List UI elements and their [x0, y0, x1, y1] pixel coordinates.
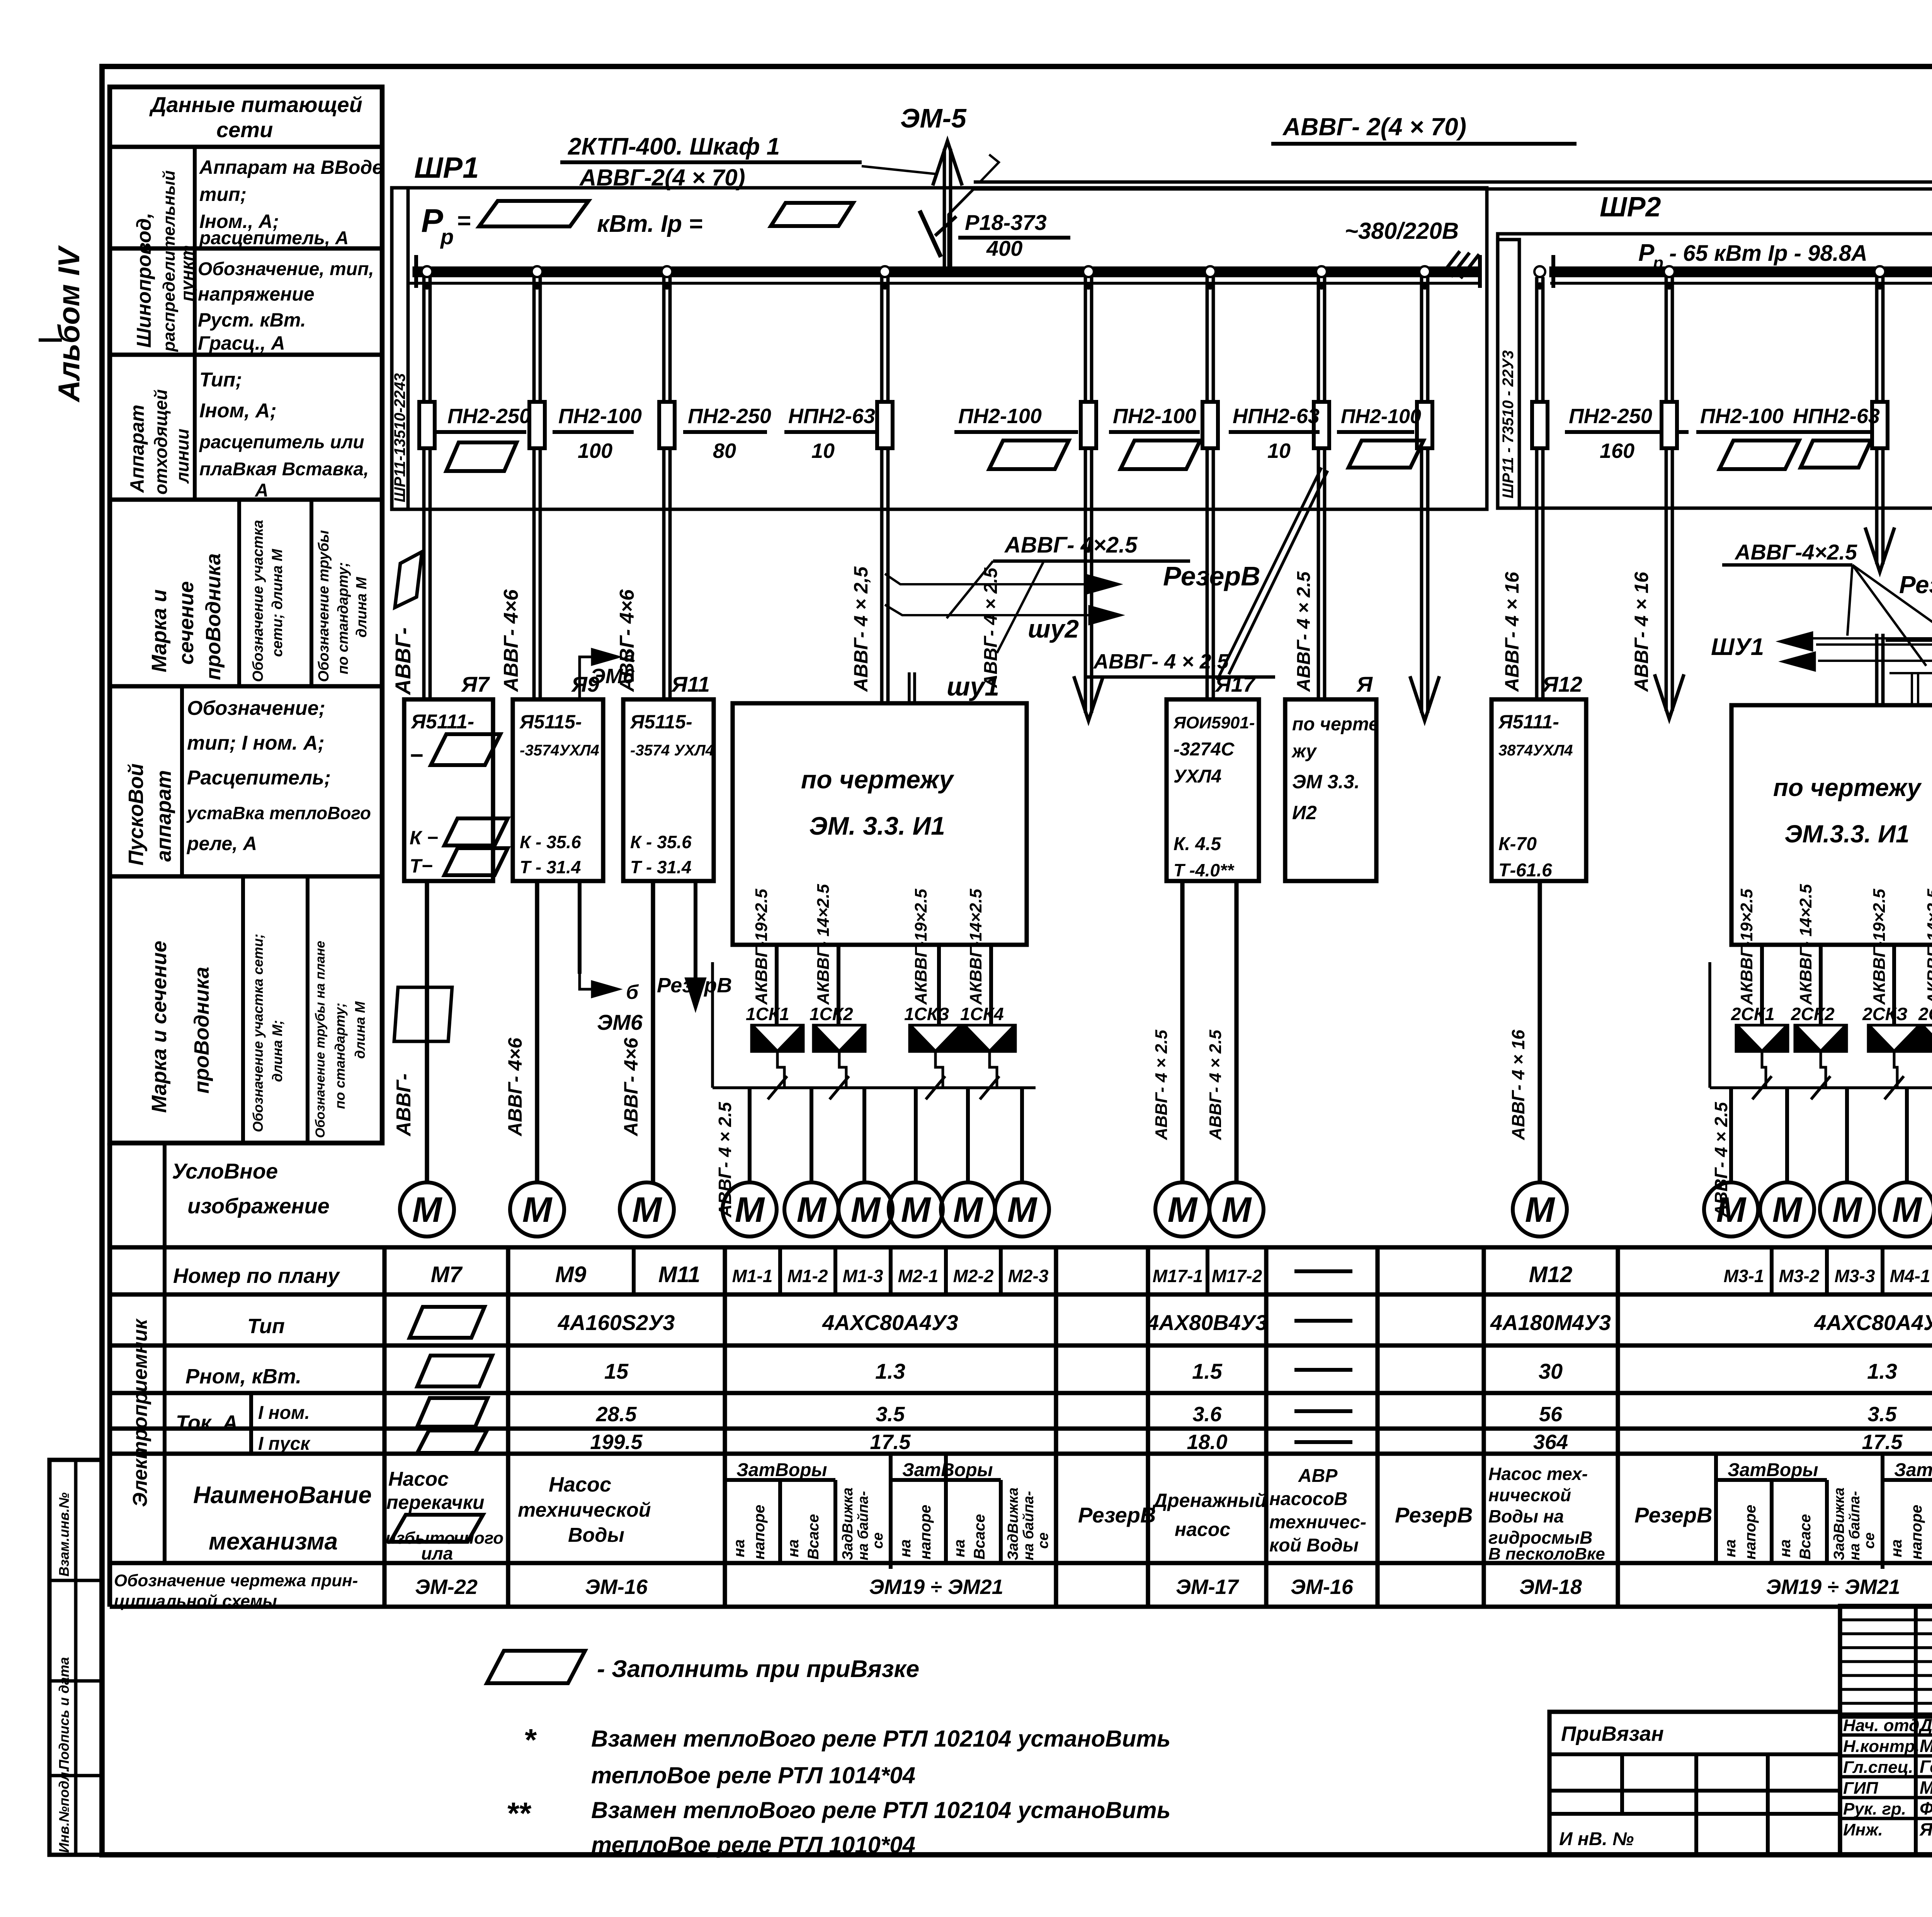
fuse НПН2-63/10 (ШУ1)	[877, 402, 893, 448]
bus2 feeder taps	[1534, 266, 1545, 277]
valve 2СК4	[1920, 1024, 1932, 1053]
svg-text:расцепитель или: расцепитель или	[199, 432, 364, 452]
svg-text:10: 10	[1267, 439, 1291, 463]
svg-text:АВВГ- 4 × 16: АВВГ- 4 × 16	[1631, 572, 1652, 692]
svg-text:Взамен теплоВого реле РТЛ 1021: Взамен теплоВого реле РТЛ 102104 устаноВ…	[591, 1797, 1170, 1823]
bus1 feeder taps	[422, 266, 432, 277]
svg-text:на байпа-: на байпа-	[855, 1491, 871, 1560]
svg-text:ЭМ 3.3.: ЭМ 3.3.	[1292, 771, 1360, 793]
svg-text:ЭМ6: ЭМ6	[590, 665, 635, 688]
svg-text:Р: Р	[1638, 240, 1655, 266]
svg-text:на байпа-: на байпа-	[1020, 1491, 1037, 1560]
svg-text:ЭМ19 ÷ ЭМ21: ЭМ19 ÷ ЭМ21	[869, 1575, 1003, 1599]
svg-text:насос: насос	[1175, 1519, 1230, 1540]
starter Я11 (Я5115-3574УХЛ4)	[623, 699, 714, 881]
svg-text:М2-2: М2-2	[953, 1266, 994, 1286]
motor М12	[1513, 1182, 1567, 1237]
svg-text:кой Воды: кой Воды	[1269, 1535, 1359, 1556]
svg-text:Аппарат на ВВоде: Аппарат на ВВоде	[199, 156, 383, 178]
svg-text:−: −	[410, 742, 423, 768]
svg-text:М: М	[1716, 1190, 1747, 1230]
fuse ПН2-100 (Я17)	[1202, 402, 1218, 448]
svg-text:30: 30	[1539, 1359, 1563, 1383]
svg-text:ЭМ-16: ЭМ-16	[1291, 1575, 1354, 1599]
svg-text:Я5111-: Я5111-	[1498, 711, 1559, 733]
svg-text:Обозначение трубы: Обозначение трубы	[316, 530, 332, 682]
svg-text:М2-3: М2-3	[1008, 1266, 1049, 1286]
feeder Резерв (ШУ2 area) arrow	[1875, 277, 1879, 564]
svg-text:механизма: механизма	[209, 1528, 338, 1555]
main supply cable АВВГ-2(4х70) across top	[974, 180, 1932, 184]
motor М3-3	[1820, 1182, 1874, 1237]
svg-text:НаименоВание: НаименоВание	[193, 1482, 372, 1509]
svg-text:І пуск: І пуск	[258, 1434, 311, 1454]
svg-text:отходящей: отходящей	[151, 389, 171, 495]
svg-text:М: М	[1892, 1190, 1923, 1230]
svg-text:шу2: шу2	[1028, 614, 1079, 643]
rotated label Аппарат отходящей линии	[193, 355, 197, 500]
motor М1-3	[838, 1182, 893, 1237]
svg-text:се: се	[1861, 1533, 1878, 1549]
svg-text:сети; длина М: сети; длина М	[269, 549, 286, 657]
title block: attachment box (Привязан)	[1549, 1712, 1840, 1855]
svg-text:=: =	[457, 208, 471, 234]
svg-text:Воды на: Воды на	[1488, 1506, 1564, 1526]
svg-text:М: М	[1222, 1190, 1252, 1230]
fuse НПН2-63 (ШУ2)	[1872, 402, 1888, 448]
ШУ2 second top wire	[1911, 674, 1913, 705]
feeder М9 wire	[532, 277, 536, 699]
svg-text:Н.контр.: Н.контр.	[1843, 1737, 1920, 1756]
svg-text:по чертежу: по чертежу	[1773, 774, 1922, 801]
svg-text:3874УХЛ4: 3874УХЛ4	[1498, 742, 1573, 759]
valve 2СК1	[1735, 1024, 1789, 1053]
svg-text:Всасе: Всасе	[1797, 1514, 1814, 1560]
svg-text:М1-1: М1-1	[732, 1266, 773, 1286]
svg-text:РезерВ: РезерВ	[657, 974, 732, 997]
motor М3-2	[1760, 1182, 1814, 1237]
svg-text:-3274С: -3274С	[1173, 739, 1235, 760]
svg-text:2КТП-400. Шкаф 1: 2КТП-400. Шкаф 1	[568, 133, 780, 160]
legend parallelogram	[487, 1651, 585, 1683]
svg-text:на: на	[785, 1539, 802, 1557]
svg-text:АВВГ- 4 × 2,5: АВВГ- 4 × 2,5	[850, 566, 872, 692]
feeder М7 wire	[422, 277, 426, 699]
feeder Резерв (bus2 left) arrow	[1665, 277, 1668, 711]
svg-text:2СК2: 2СК2	[1791, 1004, 1835, 1024]
svg-text:на: на	[731, 1539, 748, 1557]
svg-text:3.5: 3.5	[876, 1403, 905, 1426]
motor М2-2	[941, 1182, 995, 1237]
ШУ2 output wires to valves	[1760, 945, 1764, 1024]
svg-text:теплоВое реле РТЛ 1014*04: теплоВое реле РТЛ 1014*04	[591, 1762, 915, 1788]
М7 output wire	[425, 881, 429, 1183]
svg-text:М: М	[1525, 1190, 1556, 1230]
svg-text:-3574УХЛ4: -3574УХЛ4	[520, 742, 599, 759]
svg-text:АВВГ- 4 × 2.5: АВВГ- 4 × 2.5	[1294, 571, 1314, 692]
svg-text:технической: технической	[518, 1499, 651, 1521]
svg-text:1СК4: 1СК4	[960, 1004, 1004, 1024]
svg-text:Грасц., А: Грасц., А	[198, 332, 285, 354]
title block: revision/signature grid	[1840, 1606, 1932, 1855]
svg-text:АВВГ- 4 × 2.5: АВВГ- 4 × 2.5	[1093, 650, 1229, 673]
svg-text:АВВГ-: АВВГ-	[391, 628, 415, 696]
svg-text:АВВГ- 4 × 16: АВВГ- 4 × 16	[1501, 572, 1523, 692]
neutral line under bus1	[410, 282, 1480, 285]
svg-text:изображение: изображение	[187, 1194, 330, 1218]
fuse ПН2-250/80 (М11)	[659, 402, 675, 448]
svg-text:Альбом IV: Альбом IV	[52, 245, 86, 403]
svg-text:М: М	[1832, 1190, 1863, 1230]
svg-text:ПускоВой: ПускоВой	[124, 764, 148, 866]
svg-text:М: М	[797, 1190, 827, 1230]
svg-text:К −: К −	[410, 827, 438, 849]
starter Я17 (ЯОИ5901-3274С)	[1167, 699, 1259, 881]
motor drop wires М1-1..М2-3	[748, 1088, 752, 1183]
branch arrows to ШУ2	[885, 574, 1097, 584]
svg-text:ДанилоВ: ДанилоВ	[1918, 1715, 1932, 1735]
svg-text:ПН2-100: ПН2-100	[1341, 405, 1421, 428]
section: Марка и сечение проводника (lower)	[241, 876, 245, 1143]
svg-text:Взамен теплоВого реле РТЛ 1021: Взамен теплоВого реле РТЛ 102104 устаноВ…	[591, 1726, 1170, 1752]
svg-text:Инв.№подл.: Инв.№подл.	[56, 1768, 72, 1853]
svg-text:1СК1: 1СК1	[746, 1004, 789, 1024]
svg-text:на: на	[897, 1539, 914, 1557]
svg-text:80: 80	[713, 439, 736, 463]
svg-text:2СК4: 2СК4	[1918, 1004, 1932, 1024]
svg-text:Т - 31.4: Т - 31.4	[630, 857, 692, 877]
svg-text:Шинопровод,: Шинопровод,	[133, 213, 155, 348]
left header table frame	[110, 87, 382, 1143]
svg-text:АВВГ-: АВВГ-	[393, 1073, 415, 1137]
svg-text:Обозначение чертежа прин-: Обозначение чертежа прин-	[114, 1571, 358, 1590]
svg-text:АКВВГ-19×2.5: АКВВГ-19×2.5	[912, 889, 930, 1005]
short column dividers	[632, 1247, 636, 1294]
М7 output label АВВГ- + placeholder	[394, 987, 452, 1041]
svg-text:56: 56	[1539, 1403, 1563, 1426]
svg-text:на: на	[951, 1539, 968, 1557]
feeder Резерв2 arrow	[1420, 277, 1423, 713]
svg-text:28.5: 28.5	[595, 1403, 637, 1426]
svg-text:4А180М4У3: 4А180М4У3	[1490, 1310, 1611, 1335]
svg-text:Подпись и дата: Подпись и дата	[56, 1657, 72, 1770]
svg-text:ШР2: ШР2	[1600, 192, 1661, 223]
Я17 output wires	[1180, 881, 1184, 1183]
svg-text:а: а	[624, 644, 635, 666]
cabinet ШР1 outline	[392, 188, 1487, 509]
svg-text:Руст. кВт.: Руст. кВт.	[198, 309, 306, 331]
ШУ1 second stub wire	[908, 672, 911, 703]
svg-text:М: М	[901, 1190, 932, 1230]
svg-text:М: М	[953, 1190, 984, 1230]
svg-text:УслоВное: УслоВное	[172, 1159, 278, 1183]
hatch at bus1 right end	[1441, 251, 1460, 275]
svg-text:400: 400	[986, 236, 1022, 260]
svg-text:АВВГ- 4 × 2.5: АВВГ- 4 × 2.5	[1206, 1029, 1225, 1140]
svg-text:10: 10	[811, 439, 835, 463]
motor М11	[620, 1182, 674, 1237]
svg-text:- 65 кВт Ір - 98.8А: - 65 кВт Ір - 98.8А	[1669, 241, 1867, 266]
svg-text:устаВка теплоВого: устаВка теплоВого	[186, 803, 371, 823]
svg-text:Инж.: Инж.	[1843, 1820, 1883, 1839]
svg-text:Іном, А;: Іном, А;	[199, 400, 277, 422]
svg-text:Обозначение участка сети;: Обозначение участка сети;	[250, 934, 266, 1132]
svg-text:ПН2-100: ПН2-100	[1700, 405, 1784, 428]
svg-text:тип; І ном. А;: тип; І ном. А;	[187, 732, 325, 754]
svg-text:ЯОИ5901-: ЯОИ5901-	[1173, 713, 1255, 732]
starter cabinet ШУ1 (по чертежу ЭМ.3.3.И1)	[733, 703, 1027, 945]
svg-text:Всасе: Всасе	[805, 1514, 822, 1560]
svg-text:се: се	[870, 1533, 886, 1549]
svg-text:Расцепитель;: Расцепитель;	[187, 767, 331, 789]
svg-text:И2: И2	[1292, 802, 1317, 823]
fuse ПН2-250 (М7)	[419, 402, 435, 448]
svg-text:ЗатВоры: ЗатВоры	[1894, 1460, 1932, 1480]
svg-text:Я5111-: Я5111-	[410, 711, 474, 733]
svg-text:ЗадВижка: ЗадВижка	[840, 1487, 856, 1560]
svg-text:Насос тех-: Насос тех-	[1488, 1464, 1588, 1484]
svg-text:Гольцман: Гольцман	[1920, 1757, 1932, 1777]
motor М2-3	[995, 1182, 1049, 1237]
svg-text:І ном.: І ном.	[258, 1403, 310, 1423]
svg-text:- Заполнить при приВязке: - Заполнить при приВязке	[597, 1656, 919, 1682]
ШУ2 valve outputs to shelf	[1762, 1053, 1766, 1088]
svg-text:Янченко: Янченко	[1919, 1819, 1932, 1839]
svg-text:Я: Я	[1356, 672, 1373, 696]
valve 1СК1	[750, 1024, 804, 1053]
svg-text:199.5: 199.5	[590, 1431, 643, 1454]
svg-text:Марка и: Марка и	[148, 589, 171, 672]
svg-text:Марка и сечение: Марка и сечение	[148, 941, 171, 1113]
svg-text:сети: сети	[216, 117, 273, 142]
Я12 output wire	[1537, 881, 1542, 1183]
svg-text:сечение: сечение	[175, 581, 198, 665]
svg-text:АВВГ- 4 × 2.5: АВВГ- 4 × 2.5	[981, 567, 1001, 688]
section: Пусковой аппарат	[180, 686, 184, 876]
svg-text:АКВВГ-19×2.5: АКВВГ-19×2.5	[1870, 889, 1889, 1005]
starter cabinet ШУ2 (по чертежу ЭМ.3.3.И1)	[1731, 705, 1932, 945]
svg-text:ГИП: ГИП	[1843, 1779, 1879, 1798]
svg-text:по чертежу: по чертежу	[801, 765, 955, 794]
svg-text:Обозначение трубы на плане: Обозначение трубы на плане	[313, 941, 328, 1138]
svg-text:1.5: 1.5	[1192, 1359, 1223, 1383]
svg-text:4А160S2У3: 4А160S2У3	[558, 1310, 675, 1335]
svg-text:Дренажный: Дренажный	[1152, 1490, 1267, 1511]
svg-text:ЭМ-5: ЭМ-5	[900, 103, 967, 133]
ШУ1 distribution shelf wire	[713, 1086, 1036, 1089]
svg-text:Обозначение, тип,: Обозначение, тип,	[198, 259, 374, 279]
branch arrows to ШУЗ / ЭМ-7 (right)	[1886, 640, 1932, 642]
svg-text:на: на	[1888, 1539, 1905, 1557]
svg-text:проВодника: проВодника	[190, 967, 213, 1094]
svg-text:ШУ1: ШУ1	[1711, 634, 1764, 660]
svg-text:М: М	[412, 1190, 443, 1230]
rotated label Шинопровод, распределительный пункт	[193, 147, 197, 355]
svg-text:Т -4.0**: Т -4.0**	[1173, 860, 1235, 880]
svg-text:К. 4.5: К. 4.5	[1173, 834, 1221, 854]
svg-text:Мосеенко: Мосеенко	[1920, 1736, 1932, 1756]
svg-text:АВВГ- 4×2.5: АВВГ- 4×2.5	[1004, 532, 1138, 558]
svg-text:тип;: тип;	[199, 184, 247, 205]
svg-text:ПН2-100: ПН2-100	[1113, 405, 1196, 428]
М9 output wire + side taps	[535, 881, 539, 1183]
svg-text:364: 364	[1533, 1431, 1568, 1454]
svg-text:проВодника: проВодника	[202, 553, 225, 680]
svg-text:АВВГ- 2(4 × 70): АВВГ- 2(4 × 70)	[1282, 113, 1466, 141]
svg-text:160: 160	[1600, 439, 1634, 463]
fuse НПН2-63/10 (И2)	[1314, 402, 1329, 448]
svg-text:АКВВГ-14×2.5: АКВВГ-14×2.5	[1924, 889, 1932, 1005]
svg-text:А: А	[255, 480, 269, 501]
ШУ1 output wires to valves	[775, 945, 779, 1024]
svg-text:на байпа-: на байпа-	[1847, 1491, 1863, 1560]
svg-text:УХЛ4: УХЛ4	[1173, 766, 1221, 787]
feeder Резерв (ПН2-100) arrow	[1084, 277, 1087, 713]
svg-text:Я17: Я17	[1214, 672, 1256, 696]
svg-text:Взам.инв.№: Взам.инв.№	[56, 1492, 72, 1577]
svg-text:ПриВязан: ПриВязан	[1561, 1722, 1664, 1745]
svg-text:4АХС80А4У3: 4АХС80А4У3	[1814, 1310, 1932, 1335]
svg-text:длина М: длина М	[354, 577, 370, 638]
feeder Я12 wire	[1535, 277, 1539, 699]
svg-text:РезерВ: РезерВ	[1395, 1503, 1473, 1527]
svg-text:Нач. отд.: Нач. отд.	[1843, 1716, 1924, 1735]
svg-text:плаВкая Вставка,: плаВкая Вставка,	[199, 459, 369, 480]
svg-text:НПН2-63: НПН2-63	[1793, 405, 1880, 428]
svg-text:АВВГ- 4 × 16: АВВГ- 4 × 16	[1508, 1029, 1528, 1140]
svg-text:В песколоВке: В песколоВке	[1488, 1544, 1605, 1563]
motor М1-2	[784, 1182, 838, 1237]
svg-text:длина М;: длина М;	[269, 1020, 285, 1082]
leader slant (Я17)	[1217, 468, 1321, 680]
svg-text:по стандарту;: по стандарту;	[332, 1003, 348, 1109]
svg-text:Обозначение участка: Обозначение участка	[250, 520, 266, 682]
fuse ПН2-100 (резерв2)	[1417, 402, 1432, 448]
fuse ПН2-100 (bus2)	[1662, 402, 1677, 448]
svg-text:М: М	[632, 1190, 663, 1230]
fuse ПН2-100/100 (М9)	[529, 402, 545, 448]
valve 1СК3	[908, 1024, 963, 1053]
motor М3-1	[1704, 1182, 1758, 1237]
svg-text:Воды: Воды	[568, 1524, 624, 1546]
svg-text:кВт. Ір =: кВт. Ір =	[597, 211, 703, 237]
svg-text:р: р	[440, 225, 454, 249]
svg-text:АКВВГ-19×2.5: АКВВГ-19×2.5	[752, 889, 771, 1005]
svg-text:М7: М7	[431, 1262, 463, 1287]
svg-text:~380/220В: ~380/220В	[1345, 218, 1459, 244]
svg-text:М: М	[522, 1190, 553, 1230]
svg-text:М1-2: М1-2	[787, 1266, 828, 1286]
svg-text:Обозначение;: Обозначение;	[187, 697, 325, 720]
svg-text:РезерВ: РезерВ	[1078, 1503, 1156, 1527]
svg-text:жу: жу	[1291, 741, 1317, 762]
svg-text:напряжение: напряжение	[198, 283, 315, 305]
svg-text:2СКЗ: 2СКЗ	[1862, 1004, 1908, 1024]
svg-text:ЭМ-18: ЭМ-18	[1519, 1575, 1582, 1599]
svg-text:Т - 31.4: Т - 31.4	[520, 857, 581, 877]
svg-text:по черте: по черте	[1292, 714, 1379, 735]
svg-text:ПН2-100: ПН2-100	[558, 405, 642, 428]
starter box И2 (по чертежу ЭМ 3.3 И2)	[1285, 699, 1376, 881]
svg-text:реле, А: реле, А	[186, 833, 257, 854]
svg-text:напоре: напоре	[1908, 1505, 1925, 1560]
svg-text:17.5: 17.5	[870, 1431, 911, 1454]
svg-text:100: 100	[578, 439, 612, 463]
fuse ПН2-250/160 (Я12)	[1532, 402, 1548, 448]
motor М17-2	[1209, 1182, 1264, 1237]
svg-text:17.5: 17.5	[1862, 1431, 1903, 1454]
ШУ1 valve outputs to shelf	[777, 1053, 784, 1088]
busbar ШР2	[1549, 267, 1932, 277]
svg-text:теплоВое реле РТЛ 1010*04: теплоВое реле РТЛ 1010*04	[591, 1832, 915, 1858]
svg-text:М3-3: М3-3	[1835, 1266, 1875, 1286]
svg-text:М3-1: М3-1	[1724, 1266, 1764, 1286]
svg-text:-3574 УХЛ4: -3574 УХЛ4	[630, 742, 714, 759]
svg-text:Рук. гр.: Рук. гр.	[1843, 1800, 1906, 1818]
valve 2СК2	[1794, 1024, 1848, 1053]
motor drop wires М3-1..М4-3	[1729, 1088, 1733, 1183]
svg-text:Т−: Т−	[410, 855, 433, 877]
feeder ШУ1 wire	[880, 277, 884, 703]
svg-text:1.3: 1.3	[875, 1359, 905, 1383]
valve sub-cells in name row	[889, 1459, 893, 1569]
svg-text:линии: линии	[172, 429, 192, 484]
svg-text:се: се	[1035, 1533, 1051, 1549]
svg-text:аппарат: аппарат	[152, 770, 175, 862]
svg-text:М1-3: М1-3	[843, 1266, 883, 1286]
svg-text:длина М: длина М	[352, 1001, 368, 1059]
svg-text:К - 35.6: К - 35.6	[630, 832, 692, 852]
svg-text:АВВГ- 4×6: АВВГ- 4×6	[500, 589, 522, 692]
svg-text:ЭМ6: ЭМ6	[597, 1010, 643, 1034]
svg-text:М12: М12	[1529, 1262, 1573, 1287]
svg-text:насосоВ: насосоВ	[1269, 1489, 1347, 1509]
motor М1-1	[723, 1182, 777, 1237]
svg-text:Т-61.6: Т-61.6	[1498, 860, 1552, 881]
svg-text:напоре: напоре	[751, 1505, 768, 1560]
svg-text:Я7: Я7	[461, 672, 490, 696]
svg-text:ЗатВоры: ЗатВоры	[1728, 1460, 1818, 1480]
svg-text:ЭМ-22: ЭМ-22	[415, 1575, 478, 1599]
svg-text:ПН2-100: ПН2-100	[958, 405, 1042, 428]
motor М4-1	[1880, 1182, 1932, 1237]
svg-text:Я5115-: Я5115-	[519, 711, 582, 733]
left stamp column box	[49, 1460, 102, 1855]
starter Я9 (Я5115-3574УХЛ4)	[513, 699, 603, 881]
motor М9	[510, 1182, 564, 1237]
svg-text:по стандарту;: по стандарту;	[335, 562, 351, 674]
svg-text:1.3: 1.3	[1867, 1359, 1897, 1383]
svg-text:ПН2-250: ПН2-250	[688, 405, 771, 428]
svg-text:АВВГ- 4×6: АВВГ- 4×6	[620, 1037, 642, 1137]
starter Я7 (Я5111)	[404, 699, 493, 881]
svg-text:Всасе: Всасе	[971, 1514, 988, 1560]
svg-text:Аппарат: Аппарат	[126, 405, 148, 493]
svg-text:ЗадВижка: ЗадВижка	[1831, 1487, 1847, 1560]
motor М7	[400, 1182, 454, 1237]
fuse ПН2-100 (резерв1)	[1081, 402, 1096, 448]
cabinet ШР1 riser tag box	[392, 188, 408, 509]
svg-text:М: М	[851, 1190, 881, 1230]
svg-text:расцепитель, А: расцепитель, А	[199, 228, 349, 248]
svg-text:АКВВГ- 14×2.5: АКВВГ- 14×2.5	[814, 884, 833, 1005]
svg-text:НПН2-63: НПН2-63	[788, 405, 875, 428]
table column lines (full height)	[382, 1247, 386, 1607]
М9 aux arrow а ЭМ6 (top)	[580, 657, 601, 699]
section: Марка и сечение проводника (upper)	[237, 500, 241, 686]
starter Я12 (Я5111-3874УХЛ4)	[1492, 699, 1586, 881]
svg-text:**: **	[506, 1796, 532, 1830]
